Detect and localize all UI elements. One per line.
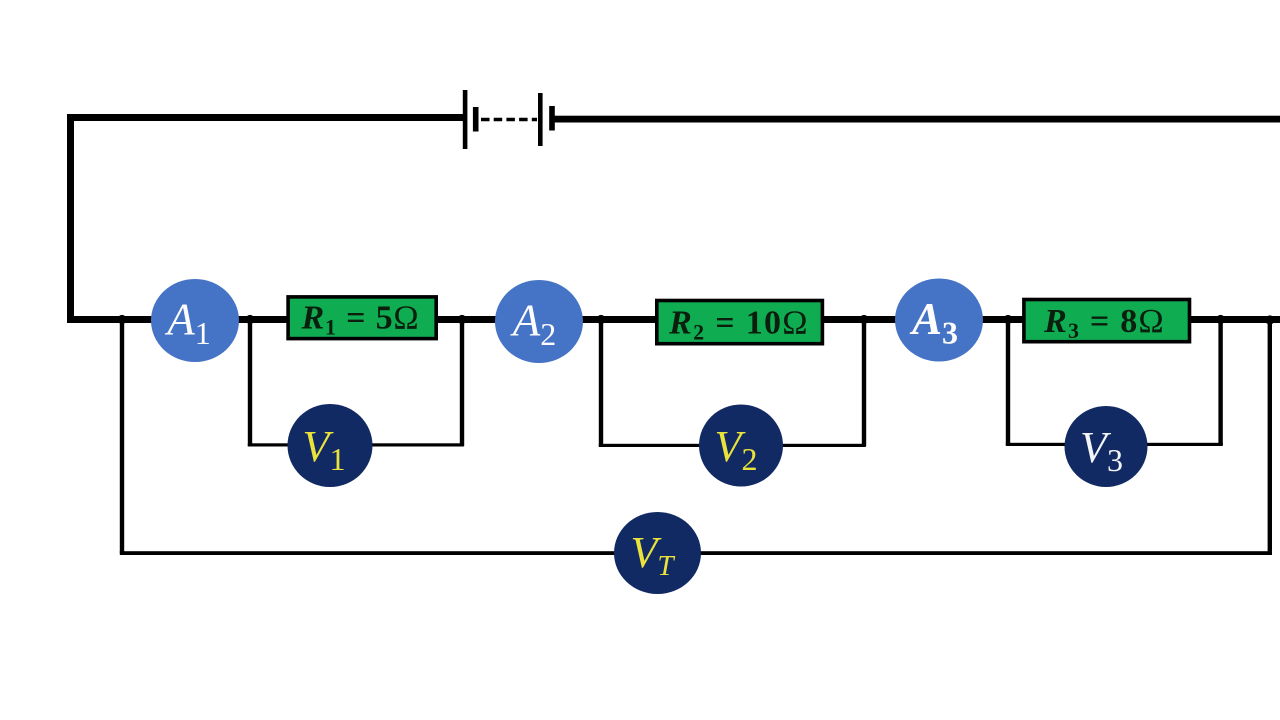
svg-text:R3 = 8Ω: R3 = 8Ω bbox=[1043, 303, 1165, 343]
wire top-right horizontal bbox=[551, 116, 1280, 123]
battery dashed link bbox=[481, 118, 537, 122]
wire V1 bottom horizontal bbox=[248, 443, 464, 446]
resistor R2 (10 ohm) bbox=[657, 301, 823, 345]
battery right long plate bbox=[538, 93, 543, 146]
svg-text:R2 = 10Ω: R2 = 10Ω bbox=[668, 305, 809, 345]
ammeter A1 bbox=[151, 279, 239, 362]
svg-text:R1 = 5Ω: R1 = 5Ω bbox=[301, 300, 420, 340]
node V3 right junction bbox=[1216, 315, 1225, 324]
wire V1 right vertical bbox=[460, 319, 464, 446]
battery B1 bbox=[463, 90, 555, 149]
wire V1 left vertical bbox=[248, 319, 252, 446]
node V2 right junction bbox=[859, 315, 868, 324]
node V2 left junction bbox=[596, 315, 605, 324]
wire V3 right vertical bbox=[1218, 319, 1222, 445]
wire V2 right vertical bbox=[862, 319, 866, 446]
voltmeter V2 bbox=[699, 405, 783, 487]
wire V2 bottom horizontal bbox=[599, 444, 866, 447]
voltmeter V1 bbox=[288, 404, 373, 487]
wire VT left vertical bbox=[120, 319, 124, 553]
node V3 left junction bbox=[1003, 315, 1012, 324]
battery right short plate bbox=[549, 106, 555, 131]
wire left vertical bbox=[67, 114, 74, 323]
ammeter A3 bbox=[895, 279, 983, 362]
wire V2 left vertical bbox=[599, 319, 603, 446]
voltmeter V3 bbox=[1065, 406, 1148, 487]
wire top-left horizontal bbox=[67, 114, 465, 121]
battery left short plate bbox=[473, 107, 479, 132]
resistor R3 (8 ohm) bbox=[1024, 300, 1190, 344]
battery left long plate bbox=[463, 90, 468, 149]
resistor R1 (5 ohm) bbox=[288, 297, 436, 340]
node VT left junction bbox=[117, 315, 126, 324]
node VT right junction bbox=[1265, 315, 1274, 324]
wire V3 bottom horizontal bbox=[1006, 443, 1223, 446]
wire main series horizontal bbox=[67, 316, 1280, 323]
ammeter A2 bbox=[495, 280, 583, 363]
node V1 left junction bbox=[245, 315, 254, 324]
wire VT right vertical bbox=[1268, 319, 1272, 555]
voltmeter VT bbox=[614, 512, 701, 594]
wire V3 left vertical bbox=[1006, 319, 1010, 445]
wire VT bottom horizontal bbox=[120, 551, 1271, 555]
node V1 right junction bbox=[457, 315, 466, 324]
